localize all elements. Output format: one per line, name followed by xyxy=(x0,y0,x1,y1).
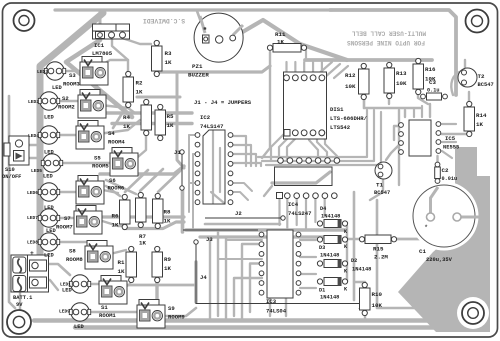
svg-text:R6: R6 xyxy=(112,213,119,220)
svg-text:DIS1: DIS1 xyxy=(330,106,344,113)
svg-text:0.01u: 0.01u xyxy=(442,176,458,182)
svg-text:IC3: IC3 xyxy=(266,298,277,305)
wire LED5-S5 xyxy=(57,162,112,164)
svg-text:R1: R1 xyxy=(118,259,125,266)
transistor T1 BC547 xyxy=(375,162,392,179)
wire vertical x399 xyxy=(398,110,400,185)
wire vertical to S9 xyxy=(194,262,197,302)
wire R-top bus xyxy=(305,58,432,62)
IC2 right pads xyxy=(228,133,233,205)
wire S6 bundle 1 xyxy=(106,186,120,196)
wire bottom band A xyxy=(34,318,456,322)
switch S3 ROOM3 xyxy=(80,57,108,86)
transistor T2 BC547 xyxy=(458,68,477,87)
wire S2 out xyxy=(100,105,135,113)
svg-text:R5: R5 xyxy=(167,113,174,120)
svg-text:S7: S7 xyxy=(64,215,71,222)
wire IC1 drop xyxy=(99,12,102,26)
wire LED7-S7 xyxy=(54,217,76,219)
wire DIS1 fan 6 xyxy=(325,133,337,156)
wire S8 out xyxy=(110,250,126,254)
wire IC2 right fan 3 xyxy=(231,154,256,166)
svg-text:10K: 10K xyxy=(372,302,383,309)
IC4 bottom pads xyxy=(277,193,283,199)
wire T2 to bus xyxy=(464,60,466,68)
wire DIS1 fan 5 xyxy=(317,133,327,157)
svg-text:D3: D3 xyxy=(319,245,325,251)
svg-text:9V: 9V xyxy=(16,302,23,308)
wire IC4 pads down 5 xyxy=(314,199,316,222)
wire IC4 pads down 4 xyxy=(305,199,307,228)
buzzer PZ1 xyxy=(194,13,243,62)
wire bottom band B xyxy=(75,325,450,329)
wire center bus 3 xyxy=(100,166,184,174)
wire horizontal over IC4 3 xyxy=(266,112,381,165)
wire IC3 right links 4 xyxy=(300,287,316,289)
LED LED5 xyxy=(41,154,62,172)
svg-text:S4: S4 xyxy=(108,130,115,137)
wire horizontal over IC4 2 xyxy=(262,110,374,161)
wire LED2-S2 xyxy=(54,100,80,102)
mounting hole bottom-right xyxy=(462,302,484,324)
resistor R13 xyxy=(384,62,395,98)
switch S4 ROOM4 xyxy=(76,121,104,150)
svg-text:R2: R2 xyxy=(136,80,143,87)
wire buzzer feed xyxy=(197,11,205,33)
wire diag bundle right of DIS1 1 xyxy=(316,62,332,76)
svg-text:*: * xyxy=(424,225,428,233)
wire buzzer right diagonal xyxy=(234,20,347,60)
wire S3 out xyxy=(100,60,128,66)
wire diag bundle right of DIS1 3 xyxy=(334,66,348,78)
resistor R1 xyxy=(126,246,137,282)
wire S6 out xyxy=(98,189,118,193)
wire DIS1 fan 3 xyxy=(287,133,301,160)
wire long diagonal through switch cluster xyxy=(66,40,132,117)
resistor R11 xyxy=(267,44,306,53)
wire IC2 internal vertical a xyxy=(212,131,214,203)
wire S10 stub top xyxy=(10,146,16,148)
mounting hole top-left xyxy=(14,10,35,31)
svg-text:74LS247: 74LS247 xyxy=(288,210,312,217)
wire R3 to right bus xyxy=(156,66,270,75)
svg-text:LED7: LED7 xyxy=(27,215,38,221)
resistor R2 xyxy=(123,71,134,107)
svg-text:R12: R12 xyxy=(345,72,356,79)
wire LED4-S4 xyxy=(54,134,78,136)
wire bottom corner 6 xyxy=(250,264,262,313)
wire resistor trio bottoms xyxy=(124,222,184,229)
wire R9 to S9 xyxy=(155,281,158,302)
wire LED8-S8 xyxy=(54,241,86,243)
wire S1 out xyxy=(120,284,130,290)
svg-text:LED6: LED6 xyxy=(27,190,38,196)
resistor R6 xyxy=(120,194,131,229)
svg-text:LED8: LED8 xyxy=(27,240,38,246)
svg-text:LED2: LED2 xyxy=(28,99,39,105)
wire R14 bottom to IC5 xyxy=(442,131,469,134)
svg-text:S10: S10 xyxy=(5,167,15,173)
wire S10 stub 1 xyxy=(29,144,40,146)
svg-text:1K: 1K xyxy=(277,39,284,46)
svg-text:J1 - J4 = JUMPERS: J1 - J4 = JUMPERS xyxy=(194,99,252,106)
capacitor C3 xyxy=(421,93,448,100)
svg-text:LED: LED xyxy=(44,205,54,211)
wire S6 bundle 2 xyxy=(106,180,136,194)
wire center bus 1 xyxy=(103,111,192,114)
svg-text:R4: R4 xyxy=(123,114,130,121)
svg-text:1N4148: 1N4148 xyxy=(320,253,339,259)
wire S4 out xyxy=(98,120,140,134)
wire mid vertical J1 area xyxy=(181,188,185,232)
LED LED7 xyxy=(38,209,59,227)
jumper J1 xyxy=(180,150,184,190)
LED LED6 xyxy=(38,183,59,201)
wire R10 top link xyxy=(354,281,365,283)
switch S2 ROOM2 xyxy=(78,90,106,119)
wire vertical x405 xyxy=(404,110,406,117)
svg-text:74LS147: 74LS147 xyxy=(200,123,224,130)
wire LED3-S3 xyxy=(60,70,86,72)
wire IC3 left pad links 2 xyxy=(218,258,262,260)
resistor R16 xyxy=(413,58,424,94)
wire T1 links xyxy=(370,179,383,200)
svg-text:LM7805: LM7805 xyxy=(92,50,113,57)
switch S10 ON/OFF xyxy=(4,136,29,165)
IC5 left pads xyxy=(399,123,404,155)
wire IC4 pads down 2 xyxy=(286,199,288,228)
LED LED9 xyxy=(69,303,90,321)
svg-text:ROOM7: ROOM7 xyxy=(56,224,73,231)
DIS1 bottom pad last xyxy=(319,130,325,136)
wire T2 left curve xyxy=(451,71,462,95)
svg-text:LED: LED xyxy=(43,174,53,180)
svg-text:BC547: BC547 xyxy=(478,82,494,88)
wire IC5 risers 1 xyxy=(421,106,423,117)
svg-text:10K: 10K xyxy=(396,80,407,87)
wire battery drop to band xyxy=(19,292,21,318)
wire R13 bottom route xyxy=(388,96,390,104)
svg-text:K: K xyxy=(344,287,348,293)
svg-text:LED: LED xyxy=(74,324,84,330)
wire diode column vertical xyxy=(346,226,348,282)
svg-text:220u,35V: 220u,35V xyxy=(426,257,453,263)
wire S10 stub 2 xyxy=(29,157,40,159)
resistor R4 xyxy=(141,99,152,135)
wire R6 top diagonal xyxy=(125,170,148,192)
wire S9 right link xyxy=(166,308,196,316)
svg-text:S8: S8 xyxy=(69,248,76,255)
wire R12 bottom route xyxy=(364,97,420,108)
wire R15 right to pour xyxy=(394,239,448,252)
wire vertical x177 xyxy=(177,72,184,168)
svg-text:+: + xyxy=(30,250,34,257)
wire R7 top diagonal xyxy=(140,169,163,191)
svg-text:R3: R3 xyxy=(165,50,172,57)
IC timer IC5 NE555 xyxy=(409,120,431,156)
wire R11 left pad drop xyxy=(262,52,270,158)
wire bottom corner 4 xyxy=(234,278,262,316)
svg-text:BUZZER: BUZZER xyxy=(188,72,209,79)
svg-text:R13: R13 xyxy=(396,70,407,77)
jumper J2 xyxy=(205,216,285,220)
wire IC5 to T1 xyxy=(386,143,401,160)
svg-text:ROOM1: ROOM1 xyxy=(99,312,116,319)
mounting hole top-right xyxy=(466,10,489,33)
svg-text:T2: T2 xyxy=(478,73,485,80)
wire IC4 bottom hug xyxy=(272,172,330,183)
wire IC3 right links 1 xyxy=(300,239,316,241)
svg-text:R11: R11 xyxy=(275,31,286,38)
switch S5 ROOM5 xyxy=(110,148,138,177)
wire IC2 right lower stub 2 xyxy=(231,192,248,200)
wire S7 out xyxy=(96,219,124,226)
svg-text:0.1u: 0.1u xyxy=(427,88,439,94)
svg-text:C2: C2 xyxy=(442,167,449,174)
mounting hole bottom-left xyxy=(7,310,31,334)
svg-text:ROOM4: ROOM4 xyxy=(108,139,125,146)
svg-text:1K: 1K xyxy=(139,240,146,247)
svg-text:S6: S6 xyxy=(109,177,116,184)
svg-text:1K: 1K xyxy=(123,123,130,130)
svg-text:S2: S2 xyxy=(62,95,69,102)
resistor R15 xyxy=(359,235,396,244)
svg-text:10K: 10K xyxy=(345,83,356,90)
svg-text:IC4: IC4 xyxy=(288,201,299,208)
wire bottom verticals 1 xyxy=(209,237,211,320)
wire IC2 inner vertical 2 xyxy=(192,154,194,228)
svg-text:ROOM8: ROOM8 xyxy=(66,256,83,263)
copper pour around C1 xyxy=(398,147,490,332)
resistor R10 xyxy=(360,282,371,315)
svg-text:R10: R10 xyxy=(372,291,383,298)
wire IC5 risers 2 xyxy=(413,108,415,117)
svg-text:LED: LED xyxy=(62,288,72,294)
DIS1 top pads xyxy=(284,75,325,81)
diode D4 1N4148 xyxy=(317,220,347,228)
wire bottom-left horizontal xyxy=(128,284,196,287)
wire IC4 pads down 1 xyxy=(278,199,280,225)
wire DIS1 fan 1 xyxy=(271,133,285,160)
wire R8 top diagonal xyxy=(158,171,180,192)
svg-text:IC1: IC1 xyxy=(94,42,105,49)
svg-text:BC547: BC547 xyxy=(374,190,390,196)
svg-text:LTS-686DHR/: LTS-686DHR/ xyxy=(330,115,368,122)
LED LED8 xyxy=(38,233,59,251)
wire IC3 right links 2 xyxy=(300,256,316,258)
IC3 left pads xyxy=(259,232,264,295)
wire LED1-S1 xyxy=(85,283,102,285)
svg-text:LED: LED xyxy=(44,150,54,156)
svg-text:ROOM6: ROOM6 xyxy=(108,185,125,192)
svg-text:74LS04: 74LS04 xyxy=(266,308,287,315)
wire IC4 pads down 3 xyxy=(296,199,298,225)
switch S7 ROOM7 xyxy=(74,206,102,235)
diode D3 1N4148 xyxy=(317,236,347,244)
svg-text:ON/OFF: ON/OFF xyxy=(2,174,21,180)
switch S9 ROOM9 xyxy=(137,300,165,329)
svg-text:J3: J3 xyxy=(206,236,213,243)
svg-text:LTS542: LTS542 xyxy=(330,124,351,131)
wire diode out to R15 xyxy=(347,238,360,240)
wire R2 bottom diagonal xyxy=(113,104,128,128)
wire J2 gray underlay xyxy=(205,223,280,226)
wire bottom verticals 3 xyxy=(225,237,227,320)
svg-text:LED9: LED9 xyxy=(59,309,70,315)
wire IC3 left pad links xyxy=(226,239,262,241)
svg-text:MULTI-USER CALL BELL: MULTI-USER CALL BELL xyxy=(352,30,427,37)
wire center bus 2 xyxy=(112,122,192,125)
svg-text:R8: R8 xyxy=(164,209,171,216)
svg-text:S.C.DWIVEDI: S.C.DWIVEDI xyxy=(143,17,185,24)
svg-text:S1: S1 xyxy=(101,304,108,311)
wire IC5 right stub 3 xyxy=(442,151,452,158)
svg-text:ROOM3: ROOM3 xyxy=(63,81,80,88)
wire LED9-S9 xyxy=(85,311,140,313)
svg-text:LED5: LED5 xyxy=(31,168,42,174)
wire DIS1 fan 4 xyxy=(309,133,318,157)
wire bottom corner 5 xyxy=(242,244,262,320)
voltage regulator IC1 LM7805 xyxy=(93,24,130,39)
wire horizontal over IC4 1 xyxy=(258,110,367,157)
resistor R3 xyxy=(152,40,163,76)
wire C3 to IC5 xyxy=(429,104,431,117)
wire IC4 bottom left curve xyxy=(264,186,272,196)
wire R16 bottom route xyxy=(418,92,428,104)
svg-text:T1: T1 xyxy=(376,182,383,189)
wire center band 1 xyxy=(186,228,345,232)
wire IC2 inner vertical 1 xyxy=(188,135,190,212)
svg-text:D1: D1 xyxy=(319,288,325,294)
svg-text:1N4148: 1N4148 xyxy=(321,214,340,220)
wire IC2 right fan 1 xyxy=(231,136,246,166)
resistor R8 xyxy=(153,193,164,228)
jumper J4 xyxy=(194,240,364,309)
resistor R5 xyxy=(155,104,166,140)
wire battery out top xyxy=(42,264,70,275)
resistor R12 xyxy=(359,63,370,99)
wire DIS1 fan 2 xyxy=(279,133,293,160)
svg-text:C1: C1 xyxy=(419,248,426,255)
wire IC3 right links 3 xyxy=(300,273,316,275)
svg-text:ROOM2: ROOM2 xyxy=(58,104,75,111)
wire bus y97 xyxy=(137,96,180,99)
svg-text:LED4: LED4 xyxy=(28,133,39,139)
svg-text:D2: D2 xyxy=(351,258,357,264)
wire vertical right of diodes xyxy=(353,192,356,300)
svg-text:BATT.1: BATT.1 xyxy=(13,295,32,301)
wire IC2 left stubs xyxy=(189,134,198,136)
IC5 right pads xyxy=(436,122,441,154)
wire IC2 left stub 3 xyxy=(189,182,198,184)
resistor R9 xyxy=(152,246,163,282)
wire left edge vertical xyxy=(9,96,15,308)
resistor R14 xyxy=(464,101,475,136)
wire IC5 right stub 2 xyxy=(442,141,456,143)
svg-text:LED: LED xyxy=(52,85,62,91)
LED LED1 xyxy=(69,275,90,293)
svg-text:S9: S9 xyxy=(168,305,175,312)
svg-text:J1: J1 xyxy=(174,149,181,156)
svg-text:1K: 1K xyxy=(167,122,174,129)
svg-text:2.2M: 2.2M xyxy=(374,254,388,261)
svg-text:LED: LED xyxy=(44,115,54,121)
wire R14 link xyxy=(468,92,470,102)
svg-text:LED3: LED3 xyxy=(37,69,48,75)
capacitor C2 xyxy=(435,162,441,183)
svg-text:1K: 1K xyxy=(476,121,483,128)
diode D2 1N4148 xyxy=(317,260,347,268)
wire S5 out xyxy=(132,134,146,162)
svg-text:LED: LED xyxy=(44,253,54,259)
wire IC2 right lower stub 1 xyxy=(231,183,252,191)
wire IC1 pad routes xyxy=(112,38,128,74)
diode D1 1N4148 xyxy=(317,278,347,286)
wire battery out bottom xyxy=(42,280,58,290)
IC2 left pads xyxy=(195,133,200,205)
wire top-left wide diagonal xyxy=(40,13,103,256)
svg-text:1N4148: 1N4148 xyxy=(352,267,371,273)
IC2 74LS147 xyxy=(203,130,225,204)
wire IC3 bottom drop 2 xyxy=(285,298,287,316)
LED LED2 xyxy=(38,92,59,110)
wire IC2 internal vertical b xyxy=(219,148,221,192)
svg-text:ROOM9: ROOM9 xyxy=(168,314,185,321)
wire IC2 left stub 2 xyxy=(193,153,198,155)
wire trio band xyxy=(95,215,184,218)
svg-text:PZ1: PZ1 xyxy=(192,63,203,70)
wire top bus xyxy=(55,8,332,11)
resistor R7 xyxy=(136,192,147,227)
svg-text:1K: 1K xyxy=(118,268,125,275)
svg-text:IC5: IC5 xyxy=(445,135,456,142)
wire IC2 internal diagonal xyxy=(211,192,224,203)
svg-text:ROOM5: ROOM5 xyxy=(92,163,109,170)
svg-text:S5: S5 xyxy=(94,155,101,162)
battery connector BATT.1 xyxy=(11,255,49,292)
wire IC5 left links xyxy=(394,126,401,140)
svg-text:J2: J2 xyxy=(235,210,242,217)
svg-text:1N4148: 1N4148 xyxy=(320,295,339,301)
svg-text:R14: R14 xyxy=(476,112,487,119)
svg-text:1K: 1K xyxy=(112,222,119,229)
svg-text:IC2: IC2 xyxy=(200,114,211,121)
LED LED3 xyxy=(44,62,65,80)
display DIS1 LTS-686DHR xyxy=(284,72,327,139)
wire center band 2 xyxy=(200,235,340,238)
svg-text:S3: S3 xyxy=(69,72,76,79)
DIS1 bottom pads xyxy=(284,130,290,137)
wire IC4 pads down 6 xyxy=(324,199,326,215)
svg-text:1K: 1K xyxy=(164,265,171,272)
switch S6 ROOM6 xyxy=(76,176,104,205)
svg-text:1K: 1K xyxy=(136,89,143,96)
wire top bus right xyxy=(330,10,456,95)
wire IC1 pad to R3 xyxy=(122,38,151,44)
svg-text:C3: C3 xyxy=(429,79,436,86)
wire C2 link xyxy=(436,156,438,190)
jumper J3 xyxy=(183,229,258,231)
svg-text:D4: D4 xyxy=(320,206,326,212)
wire R10 bottom link xyxy=(364,311,366,321)
IC3 right pads xyxy=(296,232,301,295)
svg-text:1K: 1K xyxy=(165,59,172,66)
LED LED4 xyxy=(38,126,59,144)
wire diag bundle right of DIS1 2 xyxy=(324,64,340,78)
svg-text:1K: 1K xyxy=(164,218,171,225)
svg-text:R9: R9 xyxy=(164,256,171,263)
IC3 74LS04 xyxy=(267,230,293,298)
